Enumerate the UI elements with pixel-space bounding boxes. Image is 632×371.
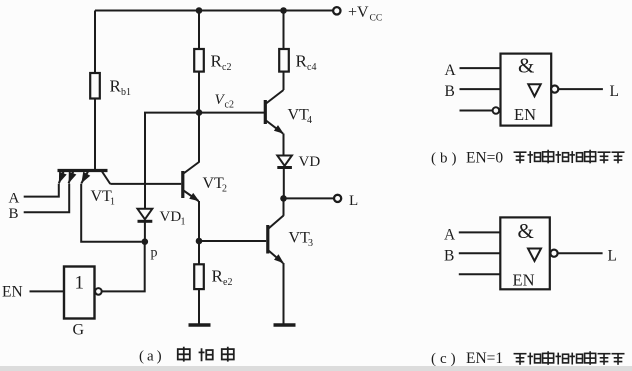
logic symbol (b): input A xyxy=(445,62,501,79)
wire VD cathode to output node xyxy=(283,168,285,199)
svg-text:VD: VD xyxy=(299,154,321,170)
transistor VT4 xyxy=(265,90,312,134)
wire VT1 collector to VT2 base xyxy=(110,183,181,185)
wire VD1 cathode to node p xyxy=(144,221,146,241)
svg-text:VD: VD xyxy=(160,209,182,225)
diode VD xyxy=(277,154,320,170)
svg-text:L: L xyxy=(610,83,619,100)
logic symbol (c): output wire L xyxy=(558,248,617,265)
node VT2 emitter / Re2 / VT3 base xyxy=(196,238,203,245)
svg-text:b1: b1 xyxy=(121,87,131,98)
transistor VT1 (multi-emitter) xyxy=(58,171,116,208)
svg-text:&: & xyxy=(518,219,534,243)
wire VT4 emitter to VD xyxy=(283,134,285,156)
wire node Vc2 to VD1 anode xyxy=(145,113,199,209)
svg-text:R: R xyxy=(110,77,122,96)
svg-text:EN: EN xyxy=(513,271,535,290)
svg-text:L: L xyxy=(608,248,617,265)
resistor Rb1 xyxy=(90,73,131,99)
gate G (enable inverter) xyxy=(2,242,145,339)
caption (c) EN=1 有效的逻辑符号 xyxy=(431,350,625,367)
node p xyxy=(142,238,158,260)
svg-text:c2: c2 xyxy=(225,100,234,111)
resistor Rc2 xyxy=(194,49,231,73)
svg-text:CC: CC xyxy=(370,13,383,23)
svg-text:EN: EN xyxy=(514,105,536,124)
svg-text:VT: VT xyxy=(289,230,311,247)
wire top supply rail xyxy=(95,10,333,12)
svg-text:R: R xyxy=(211,52,223,71)
svg-text:R: R xyxy=(296,52,308,71)
node junction top rail / Rc4 xyxy=(280,7,287,14)
node Vc2 xyxy=(196,92,234,116)
svg-text:VT: VT xyxy=(91,188,113,205)
wire Rb1 to VT1 base xyxy=(94,99,96,170)
logic symbol (b): input B xyxy=(445,83,501,100)
svg-text:3: 3 xyxy=(308,238,313,249)
svg-text:EN: EN xyxy=(2,284,23,301)
wire top rail to Rc4 xyxy=(283,11,285,50)
svg-text:B: B xyxy=(9,206,19,222)
svg-text:A: A xyxy=(9,191,20,207)
svg-text:2: 2 xyxy=(222,184,227,195)
caption (a) 电路图 xyxy=(139,347,234,365)
logic symbol (b): output bubble xyxy=(551,86,558,93)
svg-text:VT: VT xyxy=(288,107,310,124)
svg-text:G: G xyxy=(73,322,85,339)
svg-text:c2: c2 xyxy=(222,62,231,73)
svg-text:1: 1 xyxy=(181,217,186,228)
logic symbol (b): gate box U-b xyxy=(501,54,552,126)
wire left rail to Rb1 xyxy=(94,11,96,74)
svg-text:1: 1 xyxy=(110,197,115,208)
svg-text:(c): (c) xyxy=(431,351,460,367)
svg-text:p: p xyxy=(151,246,158,261)
svg-text:c4: c4 xyxy=(307,62,316,73)
svg-text:1: 1 xyxy=(75,273,85,294)
resistor Re2 xyxy=(194,264,232,289)
wire third emitter to node p xyxy=(81,184,141,242)
svg-text:VT: VT xyxy=(203,175,225,192)
svg-text:A: A xyxy=(445,62,457,79)
wire node to Re2 xyxy=(198,241,200,264)
bottom gray strip xyxy=(0,366,632,371)
svg-text:EN=1: EN=1 xyxy=(466,350,503,367)
wire VT2 emitter down xyxy=(198,201,200,241)
wire Rc4 to VT4 collector xyxy=(283,72,285,90)
logic symbol (b): EN input with bubble xyxy=(460,107,500,114)
svg-text:A: A xyxy=(444,227,456,244)
power terminal +VCC xyxy=(333,4,382,24)
svg-text:B: B xyxy=(445,83,455,100)
resistor Rc4 xyxy=(279,49,316,73)
ground (below VT3) xyxy=(274,323,296,327)
logic symbol (c): gate box U-c xyxy=(500,217,550,289)
logic symbol (c): input A xyxy=(444,227,500,244)
logic symbol (c): input B xyxy=(444,248,500,265)
output terminal L xyxy=(284,193,359,209)
node output L junction xyxy=(280,195,287,202)
ground (below Re2) xyxy=(189,323,211,327)
wire VT3 emitter to ground xyxy=(283,263,285,324)
svg-text:(a): (a) xyxy=(139,349,165,365)
diode VD1 xyxy=(138,209,186,228)
caption (b) EN=0 有效的逻辑符号 xyxy=(431,150,625,167)
transistor VT2 xyxy=(183,113,227,202)
wire node Vc2 to VT4 base xyxy=(199,112,264,114)
wire Re2 to ground xyxy=(198,289,200,323)
input A xyxy=(9,184,59,207)
svg-text:EN=0: EN=0 xyxy=(466,150,503,167)
wire Rc2 to node Vc2 xyxy=(198,72,200,113)
svg-text:B: B xyxy=(444,248,454,265)
svg-text:e2: e2 xyxy=(223,277,232,288)
transistor VT3 xyxy=(268,198,313,263)
node junction top rail / Rc2 xyxy=(196,7,203,14)
wire top rail to Rc2 xyxy=(198,11,200,50)
svg-text:4: 4 xyxy=(307,115,312,126)
svg-text:+V: +V xyxy=(348,4,369,21)
logic symbol (b): output wire L xyxy=(558,83,619,100)
logic symbol (c): output bubble xyxy=(550,250,557,257)
wire node to VT3 base xyxy=(199,240,266,242)
svg-text:&: & xyxy=(518,54,534,78)
svg-text:R: R xyxy=(212,267,224,286)
svg-text:L: L xyxy=(349,193,358,209)
svg-text:(b): (b) xyxy=(431,151,461,167)
input B xyxy=(9,184,70,222)
logic symbol (c): EN input (no bubble) xyxy=(459,273,501,275)
